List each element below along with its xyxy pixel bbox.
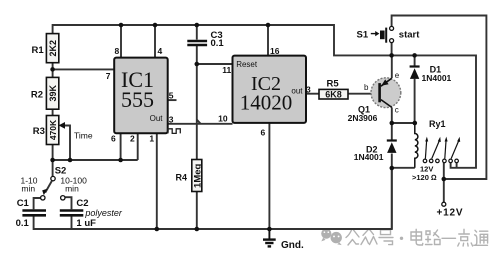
wire R3 bottom <box>52 145 54 161</box>
svg-text:0.1: 0.1 <box>16 218 30 229</box>
wire R5 to Q1 base <box>348 93 378 95</box>
wire crossover hop jog <box>197 120 201 124</box>
svg-text:5: 5 <box>169 91 174 101</box>
svg-text:Reset: Reset <box>236 60 258 69</box>
wire pin6 drop <box>120 133 122 160</box>
svg-text:c: c <box>395 106 399 115</box>
svg-text:11: 11 <box>222 65 231 75</box>
svg-text:2N3906: 2N3906 <box>348 113 378 123</box>
dot separator <box>400 237 403 240</box>
svg-text:10: 10 <box>218 114 228 124</box>
wire C3 bottom to reset node down to R4 <box>196 46 198 160</box>
svg-text:R1: R1 <box>32 45 45 56</box>
resistor R4 <box>176 160 204 192</box>
svg-text:Time: Time <box>74 130 93 140</box>
resistor R5 <box>319 79 348 100</box>
watermark wechat logo <box>321 229 342 246</box>
svg-text:C1: C1 <box>17 198 30 209</box>
wire contact stub <box>456 163 458 168</box>
wire pin5 stub <box>168 99 177 101</box>
wire R3 wiper to node <box>64 126 71 161</box>
svg-text:14020: 14020 <box>240 91 293 115</box>
switch S1 start <box>357 26 421 42</box>
wire collector node to D1/coil node <box>392 122 415 124</box>
diode D2 1N4001 <box>354 141 397 163</box>
svg-text:1 uF: 1 uF <box>76 218 96 229</box>
wire S1 bottom to rail <box>391 43 393 56</box>
wire D1 vertical <box>414 55 416 123</box>
diode D1 1N4001 <box>410 65 452 84</box>
wire IC2 pin3 to R5 <box>306 93 319 95</box>
svg-text:start: start <box>399 30 420 41</box>
svg-text:out: out <box>291 87 303 96</box>
wire top rail <box>53 25 476 168</box>
wire S1 top to outer loop <box>392 16 487 180</box>
IC2 14020 <box>233 56 307 123</box>
resistor R2 <box>31 77 59 109</box>
svg-text:6K8: 6K8 <box>325 90 342 100</box>
resistor R3 potentiometer <box>33 116 93 145</box>
char yi <box>442 237 456 239</box>
svg-text:3: 3 <box>169 115 174 125</box>
svg-text:470K: 470K <box>48 119 58 140</box>
square wave symbol <box>168 129 180 134</box>
svg-text:Ry1: Ry1 <box>429 119 446 129</box>
wire Q1 emitter up <box>391 55 393 78</box>
wire pin2 drop <box>137 133 139 160</box>
transistor Q1 2N3906 <box>348 71 401 123</box>
wire S2 common <box>52 160 54 176</box>
svg-text:1N4001: 1N4001 <box>422 73 452 83</box>
char gong <box>346 230 359 245</box>
svg-text:6: 6 <box>111 133 116 143</box>
svg-text:555: 555 <box>121 87 154 112</box>
capacitor C1 <box>16 198 46 229</box>
char lu <box>426 230 441 245</box>
IC1 555 <box>114 58 168 134</box>
svg-text:>120 Ω: >120 Ω <box>412 173 437 182</box>
wire out 555 pin3 to 14020 pin10 <box>168 123 233 125</box>
svg-text:min: min <box>21 184 35 194</box>
svg-text:8: 8 <box>115 46 120 56</box>
svg-text:R3: R3 <box>33 126 45 137</box>
char dian <box>411 229 423 245</box>
svg-text:1N4001: 1N4001 <box>354 152 384 162</box>
svg-text:e: e <box>395 71 400 80</box>
wire pin16 drop <box>267 25 269 56</box>
svg-text:4: 4 <box>158 46 163 56</box>
watermark text <box>346 229 488 246</box>
wire R1 bottom to R2 top <box>52 63 54 78</box>
wire S2 arm <box>45 181 52 193</box>
char tong <box>474 230 488 245</box>
wire pin4 drop <box>154 25 156 58</box>
wire pin7 to R1/R2 node <box>53 68 115 70</box>
svg-text:+12V: +12V <box>437 207 464 218</box>
wire R4 bottom to rail <box>196 192 198 230</box>
svg-text:Out: Out <box>150 114 164 123</box>
wire D2 link <box>391 123 393 229</box>
svg-text:0.1: 0.1 <box>211 38 225 49</box>
svg-text:R2: R2 <box>31 90 43 101</box>
svg-text:2: 2 <box>130 133 135 143</box>
wire coil bottom link <box>392 167 415 169</box>
svg-text:1Meg: 1Meg <box>193 163 204 187</box>
char hao <box>379 230 393 245</box>
svg-text:3: 3 <box>306 85 311 95</box>
svg-text:39K: 39K <box>48 85 58 102</box>
switch S2 <box>21 166 88 201</box>
svg-text:R4: R4 <box>176 173 188 183</box>
wire IC2 pin6 to rail <box>268 123 270 229</box>
svg-text:1: 1 <box>149 133 154 143</box>
resistor R1 <box>32 34 59 63</box>
wire +12V terminal <box>443 179 445 202</box>
IC1 pin labels <box>106 46 174 143</box>
wire pin8 drop <box>120 25 122 58</box>
+12V terminal <box>437 202 464 218</box>
capacitor C3 <box>187 30 224 49</box>
svg-text:6: 6 <box>261 128 266 138</box>
wire C2 bottom <box>71 216 73 229</box>
svg-text:2K2: 2K2 <box>48 40 58 57</box>
char zhong <box>361 229 377 245</box>
wire Q1 collector down <box>391 107 393 123</box>
svg-text:R5: R5 <box>327 79 340 90</box>
wire reset node to pin11 <box>197 63 233 65</box>
wire pins 6,2 bus <box>53 159 138 161</box>
svg-text:16: 16 <box>270 46 280 56</box>
relay contacts <box>412 137 460 182</box>
wire C1 bottom to rail <box>34 168 392 229</box>
char dian2 <box>458 229 473 246</box>
IC2 pin labels <box>218 46 311 138</box>
relay Ry1 coil <box>415 119 446 168</box>
wire IC1 pin1 to rail <box>156 133 158 229</box>
svg-text:polyester: polyester <box>84 208 123 218</box>
ground <box>263 229 304 251</box>
svg-text:b: b <box>364 83 369 92</box>
svg-text:min: min <box>65 184 79 194</box>
wire throw2 to C2 <box>65 197 71 209</box>
wire throw1 to C1 <box>34 198 41 209</box>
wire C3 top <box>196 25 198 40</box>
capacitor C2 <box>60 198 123 229</box>
svg-text:7: 7 <box>106 71 111 81</box>
svg-text:S1: S1 <box>357 30 369 41</box>
wire R2 bottom to R3 top <box>52 109 54 115</box>
svg-text:Gnd.: Gnd. <box>281 240 304 251</box>
